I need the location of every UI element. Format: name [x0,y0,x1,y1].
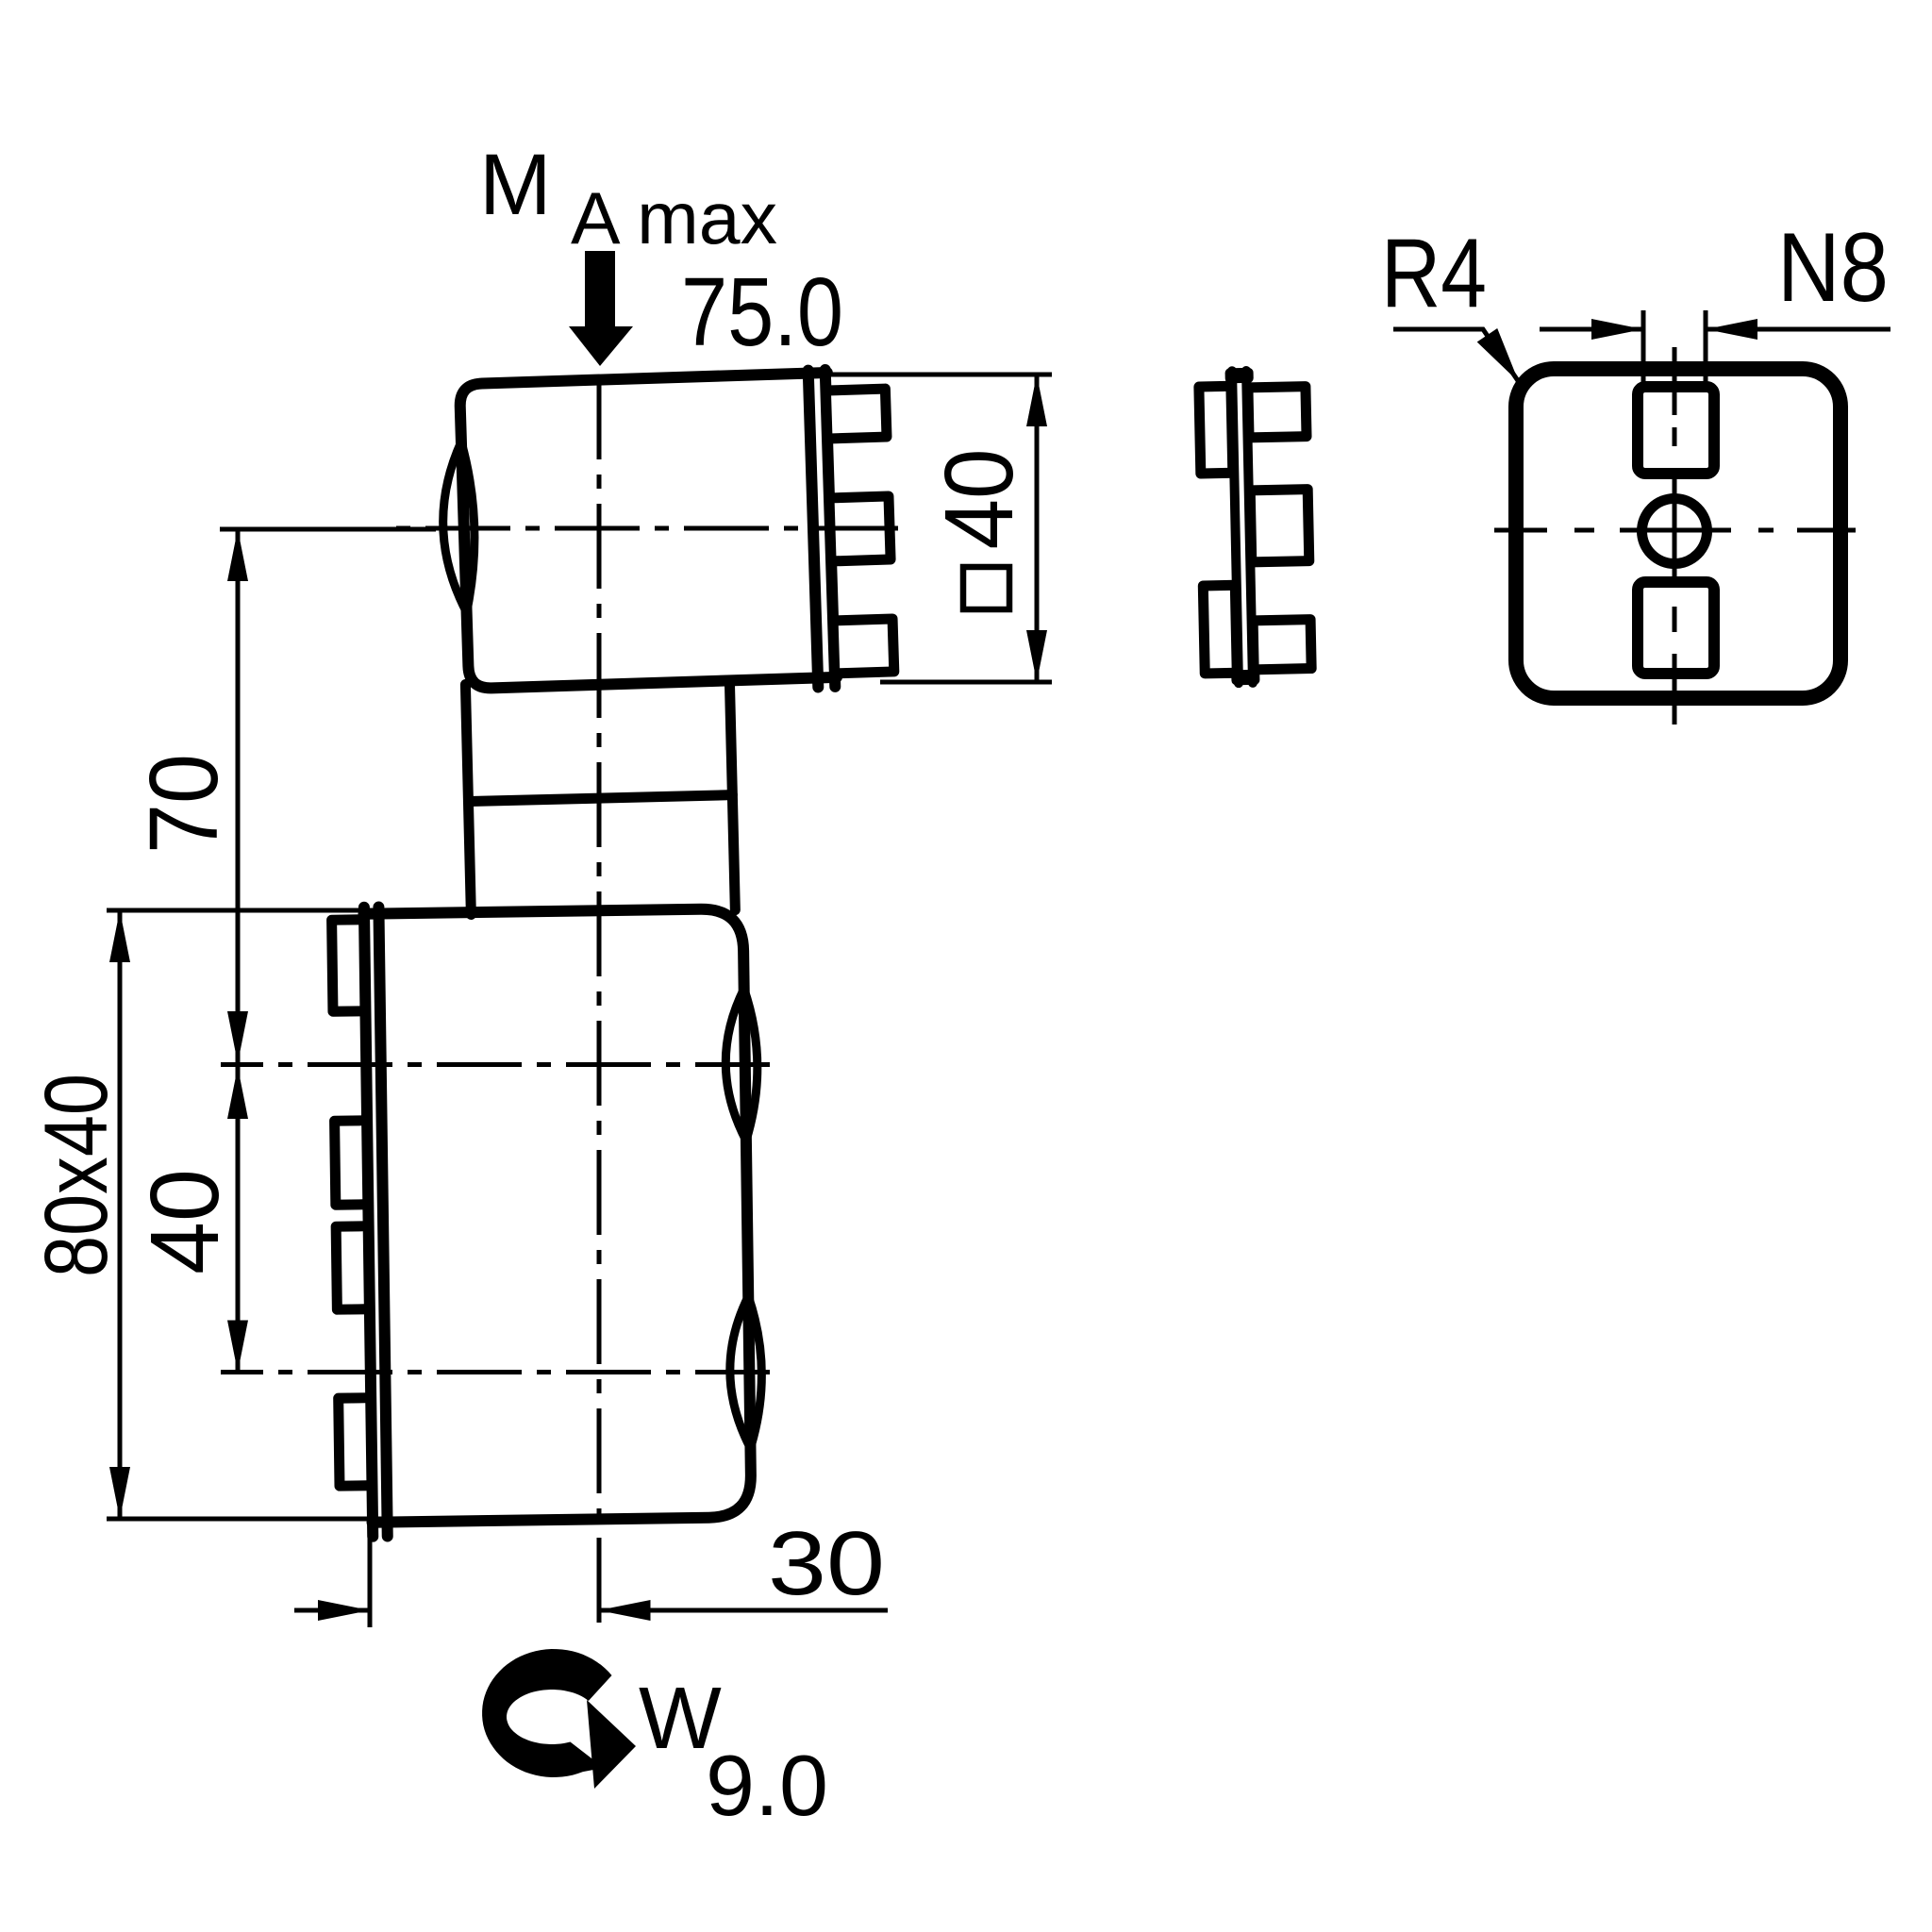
svg-text:80x40: 80x40 [26,1074,126,1277]
svg-text:N8: N8 [1777,213,1889,323]
svg-text:A max: A max [571,176,777,259]
svg-text:40: 40 [924,449,1033,550]
svg-text:30: 30 [768,1513,885,1614]
svg-text:70: 70 [129,754,238,854]
svg-text:R4: R4 [1381,219,1487,328]
svg-text:75.0: 75.0 [681,258,843,366]
svg-text:M: M [479,137,552,233]
svg-text:9.0: 9.0 [706,1739,828,1834]
svg-text:40: 40 [130,1169,239,1274]
